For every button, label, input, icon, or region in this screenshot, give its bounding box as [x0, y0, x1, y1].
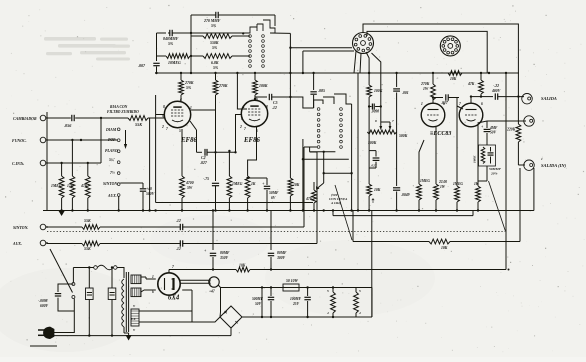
node FUNOC junction [80, 139, 82, 141]
wire AUX line [47, 243, 83, 245]
svg-text:5W: 5W [187, 186, 193, 190]
capacitor line filter 2 [108, 266, 116, 335]
svg-text:5%: 5% [168, 42, 174, 46]
svg-text:50MMF: 50MMF [489, 167, 502, 171]
svg-text:2: 2 [161, 125, 164, 129]
label RIAA CON FILTRO ZUMBIDO [107, 105, 139, 114]
svg-text:350V: 350V [219, 256, 229, 260]
capacitor C5 .12 plate [255, 94, 292, 110]
wire C.INT line [47, 162, 102, 164]
svg-text:A 16Ω): A 16Ω) [330, 201, 341, 205]
wire SINTON line [47, 226, 83, 228]
svg-text:SALIDA (IN): SALIDA (IN) [541, 163, 567, 168]
svg-text:5%: 5% [186, 86, 192, 90]
svg-text:100K: 100K [374, 89, 383, 93]
svg-text:9: 9 [241, 117, 243, 121]
jack SALIDA 2 [524, 116, 534, 126]
resistor 47K input [80, 162, 90, 210]
svg-text:RIAA CON: RIAA CON [110, 105, 128, 109]
capacitor 840MMF [163, 30, 191, 46]
svg-text:10K: 10K [450, 77, 457, 81]
capacitor 4MF 50V [481, 121, 498, 145]
svg-text:6: 6 [481, 102, 483, 106]
label POP [108, 138, 116, 142]
wire aux up to switch [310, 152, 317, 244]
capacitor .056 [64, 115, 101, 128]
wire switch out right [290, 47, 352, 49]
jack SALIDA 1 [522, 94, 557, 104]
svg-text:1: 1 [421, 102, 423, 106]
capacitor .0098 bridge [368, 104, 382, 114]
transformer filament winding [131, 304, 139, 332]
svg-text:+: + [262, 181, 265, 186]
wire aux mid [100, 243, 176, 245]
svg-text:1K: 1K [251, 182, 256, 186]
resistor humdinger 1 [326, 286, 335, 317]
svg-text:.001: .001 [402, 91, 409, 95]
svg-text:47K: 47K [467, 82, 475, 86]
node riaa junction 191 [190, 32, 192, 57]
label 5 3/4 [109, 158, 115, 162]
wire 55K to EF86 grid [148, 117, 165, 119]
node cambiador junction [100, 117, 102, 119]
svg-text:600V: 600V [40, 304, 49, 308]
svg-text:270K: 270K [218, 84, 228, 88]
wire mains top [73, 267, 93, 269]
wire plate V4 up [169, 270, 175, 273]
svg-text:10K: 10K [293, 183, 300, 187]
tube V4 6X4 [158, 273, 180, 295]
wire heater top line [221, 286, 373, 288]
wire to grid2 [457, 98, 463, 187]
resistor 10K decoupling [288, 178, 300, 210]
svg-text:-.0098: -.0098 [38, 299, 48, 303]
svg-text:EF86: EF86 [243, 137, 260, 144]
label DIAM [105, 128, 117, 132]
wire aux ground line mid [156, 202, 313, 204]
pin 1 V4 [152, 275, 154, 279]
svg-text:7: 7 [392, 119, 394, 123]
resistor 1MEG grid leak [453, 182, 463, 210]
svg-text:FUNOC.: FUNOC. [12, 139, 27, 143]
switch S2 column B [340, 108, 343, 149]
feedback network box [479, 145, 496, 166]
wire vertical 302 [302, 139, 304, 210]
svg-text:1K: 1K [474, 182, 479, 186]
wire 550K to switch [232, 35, 250, 37]
wire HV to V4 [141, 277, 146, 292]
label 6X4 [168, 295, 180, 302]
wire plate1 to cap [432, 96, 443, 103]
wire tap 152 [310, 147, 336, 153]
capacitor .0049 [393, 188, 410, 210]
pin 1 V2 [243, 105, 245, 109]
switch mains contacts [72, 283, 75, 299]
wire plug lower [53, 335, 55, 337]
wire fuse to transformer [117, 268, 124, 279]
wire vertical 323 [323, 152, 325, 183]
transformer HV secondary b [131, 288, 141, 297]
capacitor .12 sinton [176, 219, 304, 230]
svg-text:840MMF: 840MMF [163, 37, 179, 41]
wire jack3 stub [518, 164, 525, 166]
capacitor 270MMF top [203, 12, 275, 28]
pin 1 V1 [190, 106, 192, 110]
wire filament right 1 [139, 310, 192, 312]
svg-text:25V: 25V [292, 302, 300, 306]
svg-text:5%: 5% [211, 24, 217, 28]
svg-text:FILTRO ZUMBIDO: FILTRO ZUMBIDO [107, 110, 139, 114]
svg-text:4700: 4700 [185, 181, 194, 185]
resistor 270K screen V1 [213, 73, 228, 110]
svg-text:270K: 270K [420, 82, 430, 86]
socket X1 [353, 33, 374, 54]
pin 27 V1 [161, 125, 168, 131]
resistor 1MEG ecc grid [417, 160, 431, 210]
pin 6 V3a [443, 102, 445, 106]
mains plug [38, 327, 54, 339]
switch mains blade [50, 249, 73, 293]
switch S1a column A [249, 35, 252, 68]
pin 1 V3a [421, 102, 423, 106]
pilot lamp [209, 277, 219, 294]
svg-text:100MF: 100MF [290, 297, 302, 301]
resistor 220K [506, 97, 521, 165]
wire long vertical 291 [289, 51, 291, 178]
svg-text:5%: 5% [213, 66, 219, 70]
switch S1b contact column [117, 128, 120, 196]
wire grid return V1 [156, 95, 165, 203]
label AUX sw [107, 194, 117, 198]
capacitor .085 [310, 73, 325, 108]
svg-text:550K: 550K [210, 41, 219, 45]
pin 7 V3b [459, 102, 461, 106]
svg-text:Y-6: Y-6 [131, 317, 136, 321]
tube V1 EF86 [164, 101, 190, 127]
svg-text:10MEG: 10MEG [168, 61, 181, 65]
wire aux ground line right [333, 211, 473, 216]
svg-text:6V: 6V [271, 196, 276, 200]
wire V4 left pins [144, 277, 156, 290]
svg-text:220K: 220K [506, 128, 516, 132]
pot wiper arrow 1 [375, 119, 382, 130]
capacitor 80MF 300V [268, 251, 287, 270]
svg-text:55K: 55K [135, 122, 143, 127]
resistor 270K 1W plate1 [431, 73, 436, 103]
wire top L2 [367, 31, 487, 73]
wire vertical 506 [505, 73, 507, 270]
svg-text:.007: .007 [138, 63, 146, 68]
svg-text:17K: 17K [67, 184, 74, 188]
svg-text:4: 4 [358, 311, 361, 315]
wire riaa vertical left [156, 33, 158, 61]
resistor 17K input [67, 176, 75, 210]
wire top cap down to switch [274, 15, 276, 26]
svg-text:270 MMF: 270 MMF [203, 19, 221, 23]
capacitor .0098 600V line [38, 284, 74, 311]
wire tap 159 [303, 158, 349, 160]
svg-text:7½: 7½ [110, 171, 115, 175]
node plate V2 [254, 98, 256, 100]
wire screen down [214, 110, 216, 181]
dotted control line [47, 231, 505, 233]
resistor 1K cathode V2 [245, 176, 256, 210]
wire long vertical left [149, 118, 151, 210]
wire plug to switch [54, 299, 74, 333]
svg-text:.12: .12 [176, 247, 181, 251]
label ECC83 [430, 131, 451, 137]
wire riaa vertical mid [190, 15, 192, 73]
svg-text:22.00: 22.00 [438, 180, 447, 184]
svg-text:-.22: -.22 [493, 84, 499, 88]
svg-text:7: 7 [166, 127, 168, 131]
resistor 10K filter [236, 264, 250, 272]
resistor 10K bus [448, 71, 462, 81]
svg-text:SINTON.: SINTON. [103, 182, 118, 186]
svg-text:55K: 55K [84, 218, 91, 223]
socket X2 [440, 36, 460, 56]
label EF86 V1 [180, 137, 197, 144]
pin 6 V1 [180, 98, 182, 102]
resistor 10K feedback [429, 239, 450, 250]
wire main ground bus [43, 168, 534, 211]
svg-text:50MF: 50MF [269, 191, 279, 195]
svg-text:80MF: 80MF [220, 251, 230, 255]
resistor 1MEG input load [51, 163, 64, 210]
switch S2 column A [317, 108, 320, 149]
ground transformer [126, 333, 132, 341]
svg-text:6: 6 [152, 290, 154, 294]
svg-text:2: 2 [239, 125, 242, 129]
resistor 47K plate2 [467, 73, 483, 97]
wire 50MF top [246, 177, 267, 179]
svg-text:1W: 1W [440, 185, 446, 189]
resistor 55K aux [82, 241, 100, 251]
svg-text:+40: +40 [146, 187, 152, 191]
resistor 4700 5W cathode V1 [180, 129, 194, 210]
transformer HV secondary a [131, 275, 141, 284]
wire riaa to bracket [191, 32, 244, 34]
svg-text:.085: .085 [318, 88, 325, 93]
wire pot right [396, 132, 398, 186]
label 7 1/2 [110, 171, 115, 175]
capacitor C2 .027 coupling [200, 149, 236, 165]
switch S1a column B [262, 35, 265, 68]
svg-text:9: 9 [162, 115, 164, 119]
wire humdinger top [333, 287, 356, 289]
wire B+ line [175, 268, 236, 270]
label EF86 V2 [243, 137, 260, 144]
svg-text:.027: .027 [371, 164, 377, 168]
ground arrow below 1MEG [59, 211, 65, 216]
stray scan mark [30, 345, 57, 347]
wire cambiador to cap [47, 117, 68, 119]
svg-text:8: 8 [266, 105, 268, 109]
resistor 1MEG grid V2 [227, 150, 243, 210]
capacitor .001 [393, 73, 409, 132]
capacitor .027 bypass [369, 151, 379, 168]
svg-text:8: 8 [375, 119, 377, 123]
svg-text:500MF: 500MF [252, 297, 264, 301]
svg-text:1: 1 [190, 106, 192, 110]
node C.INT junction [60, 162, 62, 164]
fuse [94, 265, 117, 270]
wire B+ bus [155, 72, 519, 74]
svg-text:1MEG: 1MEG [232, 182, 243, 186]
pin 8 V1 [163, 105, 165, 109]
wire jack2 line [487, 120, 526, 122]
pin 7 V4 [172, 265, 174, 269]
svg-text:100K: 100K [259, 84, 268, 88]
svg-text:DIAM: DIAM [105, 128, 117, 132]
wire 17K top [71, 139, 73, 176]
svg-text:.027: .027 [200, 161, 208, 165]
svg-text:160K: 160K [473, 155, 477, 163]
pin 6 V4 [152, 290, 154, 294]
wire vertical 192 [182, 290, 192, 322]
jack SALIDA IN [524, 157, 567, 170]
wire heater dc bus [242, 316, 356, 318]
svg-text:SINTON.: SINTON. [13, 226, 28, 230]
label 50V CON LINEA [329, 193, 348, 205]
svg-text:4: 4 [326, 311, 329, 315]
resistor 6.8K [191, 54, 232, 70]
wire 6.8K to switch [232, 55, 250, 57]
wire fb line left [353, 211, 429, 242]
svg-text:8: 8 [163, 105, 165, 109]
svg-text:20%: 20% [490, 172, 498, 176]
svg-text:55K: 55K [84, 246, 91, 251]
svg-text:C2: C2 [201, 156, 206, 160]
wire vertical 271 [270, 211, 272, 251]
svg-text:50 10W: 50 10W [286, 279, 299, 283]
pin 27 V2 [239, 125, 246, 131]
svg-text:500K: 500K [399, 134, 408, 138]
resistor 100K plate load V2 [253, 73, 268, 100]
wire 50ohm ends [261, 288, 306, 319]
wire bridge bottom [230, 328, 232, 336]
svg-text:AUX.: AUX. [12, 242, 22, 246]
capacitor .22 output [481, 93, 524, 99]
wire cathode2 [478, 121, 488, 123]
wire fb line right [450, 168, 520, 242]
resistor humdinger 2 [354, 288, 361, 318]
svg-text:47K: 47K [305, 197, 313, 201]
label -22 400V [491, 84, 501, 93]
wire tap 173 [324, 172, 353, 174]
svg-text:10K: 10K [441, 246, 448, 250]
capacitor 500MF 50V [252, 288, 274, 318]
wire pot left down2 [368, 151, 370, 184]
rheostat 47K tone [305, 182, 316, 210]
bridge rectifier [220, 306, 242, 328]
ghost bleed-through text [44, 37, 130, 61]
speaker pointer line [335, 185, 352, 240]
wire second out [303, 51, 354, 73]
capacitor 100MF 25V [290, 288, 311, 318]
svg-text:6: 6 [180, 98, 182, 102]
resistor 50 10W [283, 279, 299, 291]
wire lamp right [218, 285, 220, 317]
wire plate2 node [470, 95, 482, 103]
wire 47K top to C.INT [88, 162, 101, 164]
wire screen V2 up [237, 73, 247, 109]
wire riaa top left [157, 32, 167, 34]
transformer primary [122, 279, 129, 333]
tube V3b ECC83 [459, 103, 483, 127]
svg-text:CAMBIADOR: CAMBIADOR [13, 117, 37, 121]
svg-text:1MEG: 1MEG [453, 182, 463, 186]
svg-text:SALIDA: SALIDA [541, 96, 557, 101]
svg-text:6.8K: 6.8K [211, 61, 219, 65]
switch S2 bracket [314, 94, 352, 108]
svg-text:4MF: 4MF [489, 126, 498, 130]
rheostat 10K hum [367, 184, 381, 210]
svg-text:POP: POP [108, 138, 116, 142]
resistor 55K sinton [82, 218, 100, 229]
svg-text:47K: 47K [80, 184, 88, 188]
pin 8 V2 [266, 105, 268, 109]
wire bank2 right down [351, 104, 353, 210]
wire coupling up to V2 grid [234, 115, 241, 154]
svg-text:5: 5 [359, 289, 361, 293]
pot wiper arrow 2 [381, 119, 394, 130]
capacitor .007 [138, 63, 160, 73]
svg-text:7: 7 [172, 265, 174, 269]
wire to 55K [101, 117, 128, 119]
svg-text:50V: 50V [255, 302, 262, 306]
svg-text:7: 7 [459, 102, 461, 106]
input jack FUNOC [12, 137, 48, 143]
wire bracket to vertical [270, 32, 290, 34]
pin 6 V2 [256, 97, 258, 101]
scan tone blotches [0, 215, 435, 352]
svg-text:.0098: .0098 [371, 110, 379, 114]
wire head vertical b [372, 53, 381, 122]
wire screen V1 [191, 109, 216, 111]
svg-text:≡ECC83: ≡ECC83 [430, 131, 451, 137]
wire vertical 358 [357, 73, 359, 210]
capacitor +40 500V decoupling [120, 183, 154, 210]
pin 5 V2 [256, 129, 258, 133]
potentiometer 500K dual [367, 130, 407, 145]
svg-text:.056: .056 [64, 123, 72, 128]
rheostat wiper arrow [316, 183, 324, 190]
wire vertical 213 [212, 211, 214, 251]
resistor 1K cathode2 [474, 125, 480, 210]
svg-text:C5: C5 [273, 101, 278, 105]
wire AUX contact down [118, 197, 120, 211]
wire head vertical a [366, 52, 370, 85]
node bus dots [60, 209, 479, 211]
svg-text:1W: 1W [423, 87, 429, 91]
wire B+ line right [250, 268, 510, 270]
wire ecc grid [419, 140, 424, 160]
resistor 10MEG [157, 54, 191, 65]
tube V3a ECC83 [421, 103, 445, 127]
wire junction down to C.INT line [100, 118, 102, 163]
svg-text:1MEG: 1MEG [51, 184, 62, 188]
capacitor .75 bypass [203, 177, 219, 210]
capacitor 50MF 6V bypass [262, 178, 279, 210]
svg-text:50V: 50V [490, 131, 497, 135]
node switch out [289, 47, 291, 49]
resistor 550K [191, 34, 232, 50]
wire vertical 372 bottom [356, 288, 372, 318]
svg-text:80MF: 80MF [277, 251, 287, 255]
svg-text:500V: 500V [146, 192, 155, 196]
resistor 2200 1W cathode1 [434, 127, 448, 210]
